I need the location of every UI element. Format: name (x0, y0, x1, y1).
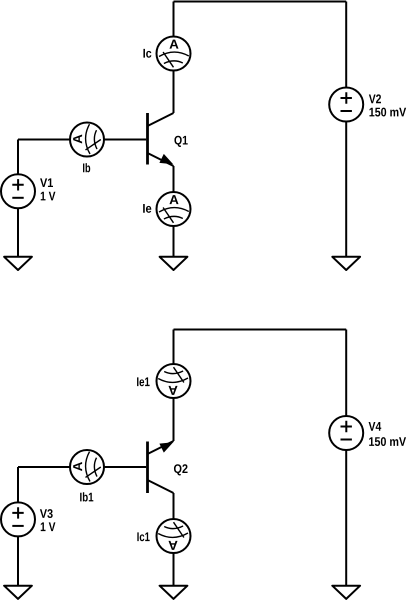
wire V1 top stub (17, 140, 19, 175)
ground under V4 (332, 586, 360, 599)
ground under Ie (160, 257, 188, 270)
transistor Q2 base bar (146, 442, 149, 494)
wire base left segment (18, 139, 70, 141)
wire V3 to ground (17, 536, 19, 585)
wire Q1 emitter vertical (173, 166, 175, 192)
wire Ie to ground (173, 226, 175, 257)
wire Ic1 to ground (173, 553, 175, 586)
label V2 (369, 94, 381, 103)
label Ic (143, 49, 151, 58)
label V1 (40, 178, 53, 187)
transistor Q1 collector diagonal (148, 113, 174, 126)
transistor Q2 emitter diagonal with arrow (148, 441, 174, 454)
label Ic1 (137, 532, 149, 541)
ammeter Ib1 (70, 450, 104, 484)
transistor Q1 base bar (146, 113, 149, 165)
label V4 (369, 422, 382, 431)
label Ib1 (80, 492, 93, 501)
wire top rail circuit 1 (174, 1, 347, 3)
ground under Ic1 (160, 586, 188, 599)
voltage source V4 (329, 416, 363, 450)
label Q2 (174, 464, 188, 475)
voltage source V1 (1, 174, 35, 208)
voltage source V2 (329, 88, 363, 122)
label Ie (143, 204, 151, 213)
wire Q2 collector vertical (173, 493, 175, 519)
wire V1 to ground (17, 208, 19, 256)
transistor Q2 collector diagonal (148, 480, 174, 493)
wire V2 top drop (345, 2, 347, 88)
ammeter Ie (157, 192, 191, 226)
wire V4 to ground (345, 450, 347, 586)
label 1 V (41, 192, 56, 201)
label 150 mV circuit 2 (369, 437, 406, 446)
wire V3 top stub (17, 467, 19, 502)
wire V2 to ground (345, 122, 347, 257)
ground under V1 (4, 257, 32, 270)
wire Ic top stub (173, 2, 175, 37)
label Q1 (174, 136, 187, 147)
label Ib (83, 163, 90, 172)
ground under V3 (4, 586, 32, 599)
label 150 mV (369, 108, 406, 117)
wire base right segment (104, 139, 146, 141)
label Ie1 (137, 377, 150, 386)
ammeter Ic1 (157, 519, 191, 553)
label V3 (40, 509, 53, 518)
ammeter Ib (70, 123, 104, 157)
wire base right segment circuit 2 (104, 466, 146, 468)
ammeter Ie1 (157, 364, 191, 398)
transistor Q1 emitter diagonal with arrow (148, 153, 174, 166)
label 1 V circuit 2 (41, 522, 56, 531)
ammeter Ic (157, 37, 191, 71)
wire Ic bottom to Q1 collector (173, 71, 175, 114)
ground under V2 (332, 257, 360, 270)
wire Ie1 to Q2 emitter (173, 398, 175, 441)
voltage source V3 (1, 502, 35, 536)
wire base left segment circuit 2 (18, 466, 70, 468)
wire Ie1 top stub (173, 330, 175, 365)
wire top rail circuit 2 (174, 329, 347, 331)
wire V4 top drop (345, 330, 347, 417)
